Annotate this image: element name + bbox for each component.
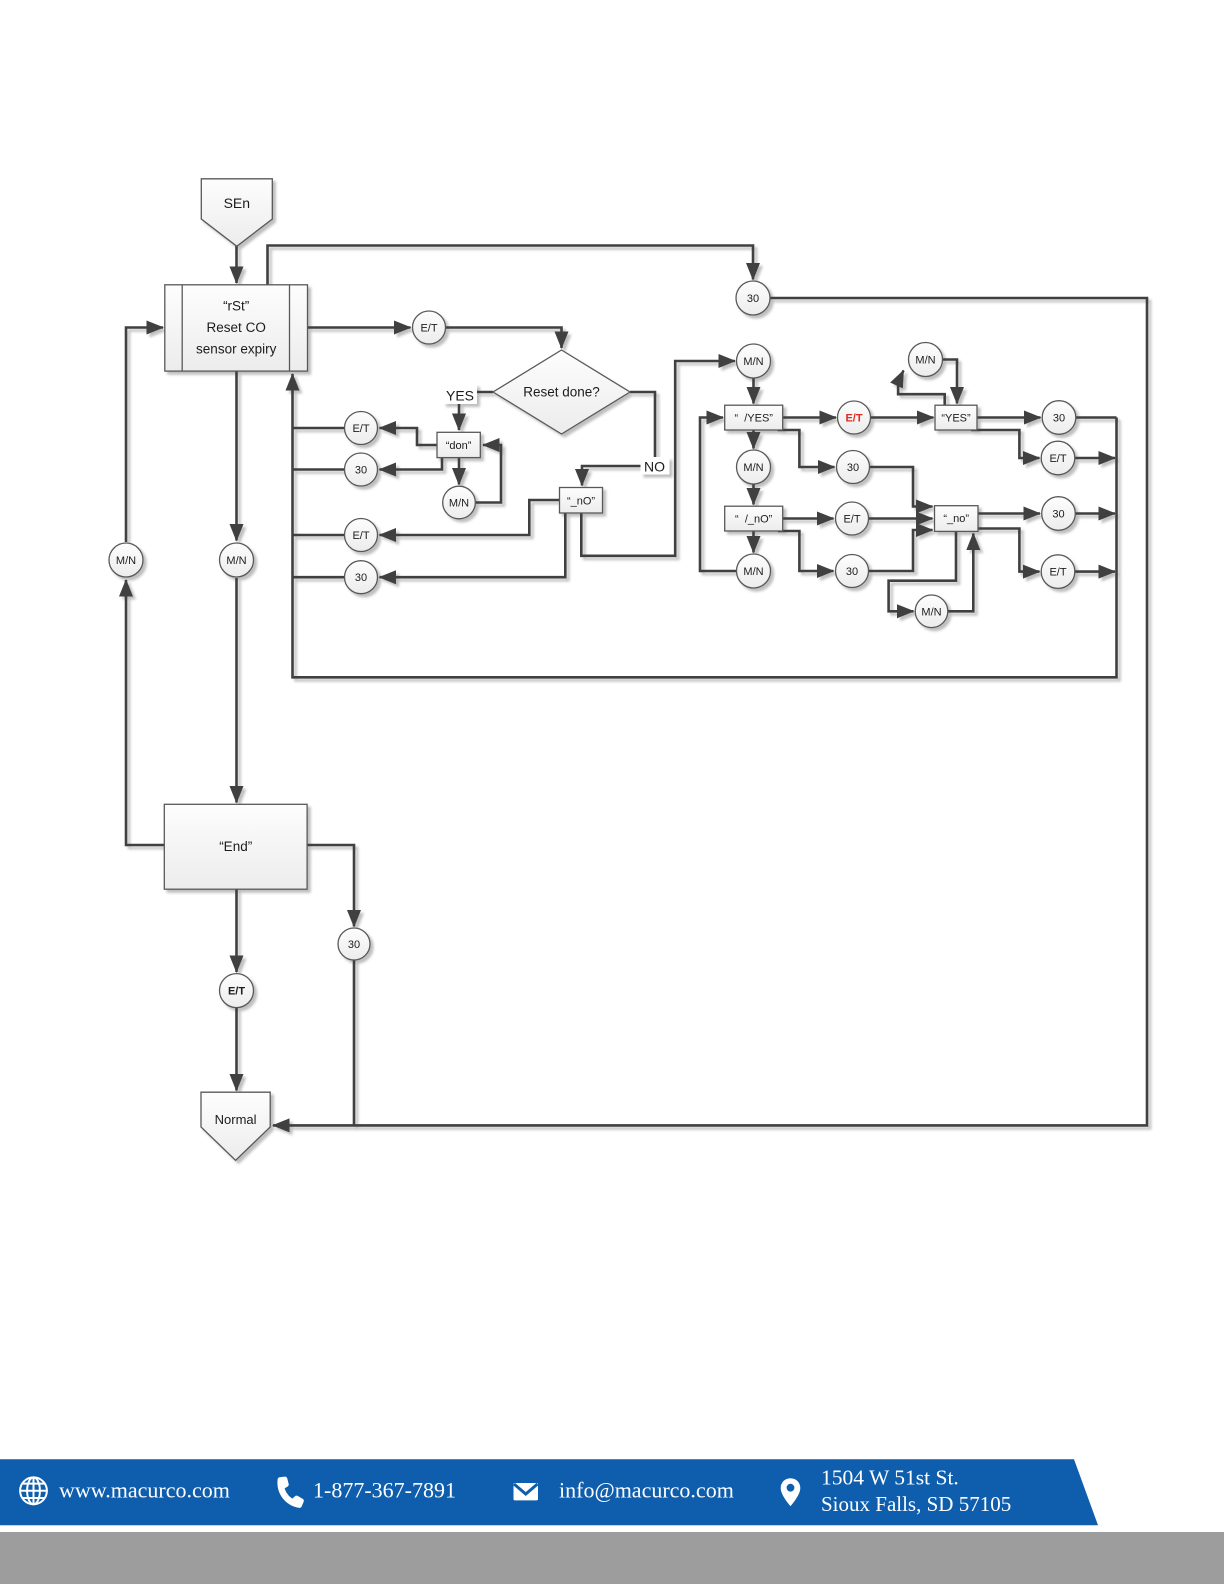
process don (437, 432, 480, 457)
connector M/N don (443, 486, 476, 519)
connector E/T _nO (345, 519, 378, 552)
svg-text:“ /_nO”: “ /_nO” (735, 514, 773, 526)
connector 30 don (345, 453, 378, 486)
wire _no to M/N c5 (889, 531, 956, 611)
svg-text:“_no”: “_no” (943, 513, 969, 525)
connector E/T 1 (413, 311, 446, 344)
wire 30 to right rail (1075, 512, 1115, 515)
wire YES branch to don (459, 392, 493, 430)
wire /YES to E/T red (783, 416, 836, 419)
connector E/T end (220, 974, 254, 1008)
wire M/N c3 to /_nO (752, 484, 755, 505)
svg-text:E/T: E/T (1049, 453, 1066, 465)
footer gray bar (0, 1532, 1224, 1584)
wire /YES to M/N c3 (752, 430, 755, 449)
svg-text:30: 30 (747, 293, 759, 305)
connector M/N left (109, 543, 143, 577)
svg-text:30: 30 (847, 462, 859, 474)
connector E/T red (838, 401, 871, 434)
wire /_nO to M/N c4 (752, 531, 755, 553)
wire NO branch to _nO (582, 392, 655, 486)
connector E/T r2 (1041, 441, 1075, 475)
label bg YES (443, 384, 477, 404)
wire M/N mid to End (235, 578, 238, 803)
svg-text:1-877-367-7891: 1-877-367-7891 (313, 1478, 456, 1503)
svg-text:“_nO”: “_nO” (567, 496, 595, 508)
wire E/T to left rail (293, 534, 345, 537)
svg-text:Normal: Normal (215, 1112, 257, 1127)
wire End to E/T (235, 889, 238, 972)
wire M/N c1 to /YES (752, 378, 755, 404)
svg-text:30: 30 (355, 465, 367, 477)
wire M/N left to rSt (126, 328, 163, 543)
connector 30 top (736, 281, 770, 315)
connector M/N c4 (737, 554, 771, 588)
connector E/T cl (836, 502, 869, 535)
connector E/T r4 (1041, 555, 1075, 589)
svg-text:info@macurco.com: info@macurco.com (559, 1478, 734, 1503)
wire End to 30 (308, 845, 355, 927)
wire don to M/N (458, 458, 461, 485)
connector M/N mid (220, 543, 254, 577)
svg-text:1504 W 51st St.: 1504 W 51st St. (821, 1466, 959, 1490)
wire E/T red to YES box (871, 416, 934, 419)
process YES (935, 405, 977, 430)
process /_nO (725, 506, 783, 531)
svg-text:E/T: E/T (352, 530, 369, 542)
wire don to 30 (380, 458, 443, 470)
wire M/N c5 to _no bottom (948, 534, 973, 612)
wire don to E/T (380, 428, 438, 445)
svg-text:YES: YES (446, 388, 474, 404)
connector M/N c1 (737, 344, 771, 378)
connector M/N c5 (915, 595, 948, 628)
svg-text:M/N: M/N (915, 355, 935, 367)
wire rSt to M/N mid (235, 371, 238, 541)
wire 30 right loop down to Normal (273, 298, 1147, 1125)
wire _no to 30 (978, 512, 1040, 515)
wire E/T to left rail (293, 427, 345, 430)
wire YES box to E/T (971, 430, 1040, 458)
process rSt (predefined) (165, 285, 308, 371)
wire _nO up to cluster M/N (581, 361, 735, 556)
wire SEn to rSt (235, 246, 238, 283)
label bg NO (641, 457, 670, 475)
svg-text:NO: NO (644, 459, 665, 475)
connector 30 _nO (345, 561, 378, 594)
wire rSt right to E/T (308, 326, 411, 329)
svg-text:M/N: M/N (116, 555, 136, 567)
wire 30 to left rail (293, 576, 345, 579)
svg-text:M/N: M/N (743, 566, 763, 578)
wire rSt top to connector 30 (268, 246, 754, 286)
wire E/T to right rail (1075, 570, 1115, 573)
process /YES (725, 405, 783, 430)
connector M/N c3 (737, 450, 771, 484)
svg-text:30: 30 (348, 939, 360, 951)
svg-text:sensor expiry: sensor expiry (196, 342, 277, 357)
wire E/T to decision (446, 328, 562, 349)
svg-text:30: 30 (1053, 413, 1065, 425)
connector E/T don (345, 412, 378, 445)
svg-text:M/N: M/N (743, 462, 763, 474)
wire _no to E/T (978, 529, 1040, 572)
svg-text:www.macurco.com: www.macurco.com (59, 1478, 230, 1503)
wire YES top to M/N c2 (898, 371, 945, 406)
wire /_nO to E/T (783, 517, 834, 520)
wire E/T to _no (869, 517, 933, 520)
svg-text:“rSt”: “rSt” (223, 299, 249, 314)
wire 30 to left rail (293, 468, 345, 471)
svg-text:30: 30 (846, 566, 858, 578)
terminator SEn (201, 179, 272, 247)
icon pin (781, 1478, 801, 1506)
footer blue banner (0, 1459, 1098, 1525)
connector M/N c2 (909, 343, 943, 377)
decision Reset done? (493, 350, 630, 434)
svg-text:SEn: SEn (224, 195, 250, 211)
wire 30 to _no top-left (870, 467, 933, 507)
svg-text:E/T: E/T (843, 514, 860, 526)
svg-text:“YES”: “YES” (941, 413, 971, 425)
connector 30 cl2 (836, 555, 869, 588)
svg-text:E/T: E/T (845, 413, 862, 425)
icon envelope (514, 1483, 539, 1500)
wire YES box to 30 (977, 416, 1041, 419)
wire M/N loop to don (476, 445, 502, 503)
svg-text:M/N: M/N (921, 606, 941, 618)
svg-text:M/N: M/N (226, 555, 246, 567)
svg-text:M/N: M/N (449, 498, 469, 510)
icon phone (274, 1476, 307, 1509)
svg-text:“End”: “End” (219, 839, 252, 854)
wire _nO to 30 (380, 513, 566, 577)
process _nO (560, 488, 603, 514)
svg-text:Reset done?: Reset done? (523, 385, 600, 400)
svg-text:Sioux Falls, SD 57105: Sioux Falls, SD 57105 (821, 1492, 1011, 1516)
wire 30 down to Normal wire (353, 960, 356, 1125)
svg-text:E/T: E/T (352, 423, 369, 435)
wire End to M/N left (126, 580, 165, 845)
svg-text:E/T: E/T (228, 986, 245, 998)
wire E/T to Normal (235, 1008, 238, 1091)
svg-text:30: 30 (355, 572, 367, 584)
process _no (935, 506, 979, 532)
svg-text:“ /YES”: “ /YES” (734, 413, 773, 425)
svg-text:“don”: “don” (446, 440, 472, 452)
wire M/N c2 to YES top (943, 360, 958, 404)
connector 30 r1 (1042, 401, 1076, 435)
icon globe (20, 1477, 47, 1504)
svg-text:E/T: E/T (420, 323, 437, 335)
svg-text:Reset CO: Reset CO (207, 320, 266, 335)
connector 30 end (338, 928, 370, 960)
svg-text:M/N: M/N (743, 356, 763, 368)
rail right-bottom-left up into rSt (293, 374, 1117, 677)
wire E/T to right rail (1075, 457, 1115, 460)
process End (164, 804, 307, 889)
svg-text:E/T: E/T (1049, 567, 1066, 579)
wire _nO to E/T (380, 500, 560, 535)
svg-text:30: 30 (1052, 509, 1064, 521)
connector 30 r3 (1042, 497, 1076, 531)
wire /YES to 30 (778, 430, 835, 467)
wire 30 to _no bottom-left (869, 530, 933, 571)
wire M/N c4 loop to /YES (700, 418, 737, 572)
terminator Normal (201, 1092, 270, 1160)
wire /_nO to 30 (778, 531, 834, 571)
wire 30 to right rail (1076, 416, 1117, 419)
connector 30 cl (837, 451, 870, 484)
